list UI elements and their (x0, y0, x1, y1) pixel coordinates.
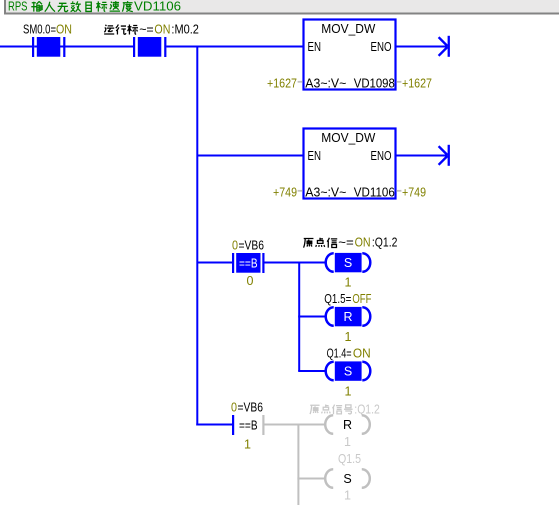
svg-text:R: R (343, 310, 352, 324)
svg-text:VD1106: VD1106 (134, 0, 181, 14)
svg-text:SM0.0=: SM0.0= (23, 22, 56, 37)
label Q1.4 set coil (327, 345, 371, 360)
svg-text:0: 0 (232, 237, 238, 252)
svg-text:1: 1 (244, 438, 251, 452)
svg-text:S: S (343, 472, 351, 486)
svg-text:RPS: RPS (8, 0, 28, 14)
svg-text::Q1.2: :Q1.2 (372, 235, 398, 250)
svg-text:OFF: OFF (352, 291, 371, 306)
svg-text:ENO: ENO (371, 148, 392, 163)
wire ENO 2 to arrow (396, 155, 448, 157)
svg-text:1: 1 (344, 489, 351, 503)
svg-text:0: 0 (231, 399, 237, 414)
network comment bar (5, 0, 559, 14)
gray branch vertical wire (297, 424, 299, 505)
rung 2 continuation arrow (439, 145, 450, 166)
label 0=VB6 (comparator 2) (231, 399, 263, 414)
svg-text:VD1098: VD1098 (354, 75, 395, 90)
svg-text:~=: ~= (338, 235, 354, 250)
label Q1.5 reset coil (324, 291, 371, 306)
svg-text:Q1.5=: Q1.5= (324, 291, 351, 306)
svg-text:ENO: ENO (371, 39, 392, 54)
input stub MOV_DW 2 (298, 190, 303, 192)
MOV_DW box 1 (304, 20, 396, 91)
svg-text:Q1.4=: Q1.4= (327, 345, 352, 360)
comparator contact ==B 2 (not powered) (232, 415, 265, 435)
label M0.2 (104, 22, 199, 37)
svg-text:1: 1 (344, 435, 351, 449)
svg-text:+1627: +1627 (402, 75, 432, 90)
reset coil R Q1.5 (powered) (326, 307, 371, 326)
rung 1 continuation arrow (439, 36, 450, 57)
wire left rail to contact SM0.0 (0, 46, 33, 48)
gray wire branch to S coil (297, 478, 325, 480)
svg-text:=VB6: =VB6 (239, 237, 265, 252)
svg-text:R: R (343, 418, 352, 432)
svg-text:0: 0 (247, 274, 254, 288)
svg-text:==B: ==B (239, 418, 258, 432)
set coil S Q1.5 (not powered) (325, 469, 370, 488)
svg-text:S: S (344, 256, 352, 270)
gray wire comparator 2 to R coil (265, 424, 326, 426)
svg-text:VD1106: VD1106 (354, 184, 395, 199)
svg-text:ON: ON (353, 345, 371, 360)
svg-text:+749: +749 (402, 184, 426, 199)
svg-text:MOV_DW: MOV_DW (321, 130, 376, 145)
svg-text:A3~:V~: A3~:V~ (305, 184, 346, 199)
svg-text:ON: ON (56, 22, 72, 37)
set coil S Q1.4 (powered) (326, 361, 371, 380)
branch vertical wire (coil group) (298, 262, 300, 372)
svg-text:1: 1 (345, 276, 352, 290)
set coil S Q1.2 (powered) (326, 253, 371, 272)
trunk vertical wire (196, 46, 198, 426)
svg-text:A3~:V~: A3~:V~ (305, 75, 346, 90)
svg-text:EN: EN (308, 39, 322, 54)
svg-text:ON: ON (154, 22, 170, 37)
input stub MOV_DW 1 (298, 81, 303, 83)
svg-text:S: S (344, 365, 352, 379)
label Q1.2 set coil (304, 235, 398, 250)
svg-text:==B: ==B (239, 256, 258, 270)
svg-text::Q1.2: :Q1.2 (354, 401, 380, 416)
svg-text:MOV_DW: MOV_DW (321, 21, 376, 36)
svg-text:1: 1 (345, 385, 352, 399)
svg-text:=VB6: =VB6 (238, 399, 264, 414)
gray label Q1.2 reset coil (310, 401, 380, 416)
output stub MOV_DW 1 (396, 81, 401, 83)
svg-text:EN: EN (308, 148, 322, 163)
svg-text:Q1.5: Q1.5 (338, 451, 361, 466)
MOV_DW box 2 (304, 129, 396, 200)
wire branch to S coil Q1.4 (298, 370, 326, 372)
contact M0.2 (normally open, powered) (133, 37, 166, 57)
label SM0.0=ON (23, 22, 72, 37)
label 0=VB6 (comparator 1) (232, 237, 264, 252)
reset coil R Q1.2 (not powered) (325, 415, 370, 434)
wire contact M0.2 to MOV_DW box 1 (166, 46, 303, 48)
wire trunk to MOV_DW box 2 (197, 155, 303, 157)
wire branch to R coil Q1.5 (298, 316, 326, 318)
comparator contact ==B 1 (powered) (232, 253, 265, 273)
svg-text:1: 1 (345, 330, 352, 344)
svg-text::M0.2: :M0.2 (171, 22, 199, 37)
wire ENO 1 to arrow (396, 46, 448, 48)
svg-text:~=: ~= (139, 22, 154, 37)
wire trunk elbow to comparator ==B 2 (196, 424, 233, 426)
wire trunk to comparator ==B 1 (197, 262, 233, 264)
wire comparator 1 to S coil Q1.2 (265, 262, 327, 264)
svg-text:ON: ON (355, 235, 371, 250)
svg-text:+1627: +1627 (267, 75, 297, 90)
output stub MOV_DW 2 (396, 190, 401, 192)
contact SM0.0 (normally open, powered) (32, 37, 65, 57)
wire between contacts (34, 46, 134, 48)
svg-text:+749: +749 (273, 184, 297, 199)
